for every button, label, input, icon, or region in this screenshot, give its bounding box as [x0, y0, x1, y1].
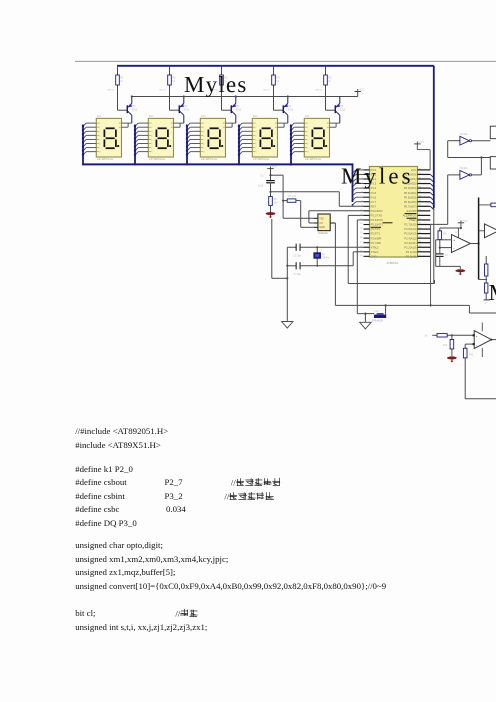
- wire sensor out down: [334, 223, 336, 305]
- wire inverterC input: [430, 175, 460, 225]
- svg-text:P1.7: P1.7: [371, 200, 377, 204]
- resistor R6 reset: [269, 197, 279, 206]
- svg-text:VCC: VCC: [462, 219, 468, 223]
- svg-text:VCC: VCC: [411, 168, 417, 172]
- svg-text:0V: 0V: [485, 303, 488, 305]
- svg-text:9012: 9012: [288, 108, 294, 111]
- wire VCC top rail: [117, 65, 434, 67]
- display DS4 7SEG: [238, 115, 284, 161]
- op inverter U5: [460, 134, 472, 145]
- wire R7 to sensor pin3: [301, 201, 314, 228]
- resistor R7 sensor: [283, 196, 301, 202]
- svg-text:9012: 9012: [132, 108, 138, 111]
- svg-text:9012: 9012: [340, 108, 346, 111]
- svg-text:P1.5: P1.5: [371, 191, 377, 195]
- wire inverterC out: [472, 156, 483, 175]
- svg-text:P0.3(AD3): P0.3(AD3): [404, 186, 417, 190]
- transistor Q3: [231, 97, 241, 124]
- svg-text:R3: R3: [224, 76, 228, 80]
- op-amp U7: [473, 323, 493, 358]
- op-amp U3: [452, 231, 471, 253]
- svg-text:9012: 9012: [184, 108, 190, 111]
- svg-text:P0.6(AD6): P0.6(AD6): [404, 200, 417, 204]
- svg-text:14: 14: [360, 228, 363, 230]
- op sensor U2 box: [314, 214, 335, 235]
- capacitor C3: [294, 262, 302, 276]
- svg-text:P0.5(AD5): P0.5(AD5): [404, 195, 417, 199]
- svg-text:DS2: DS2: [149, 115, 154, 118]
- label watermark Myles 3: [489, 284, 496, 305]
- node emitter rail junction: [287, 95, 289, 97]
- svg-text:VCC: VCC: [359, 88, 365, 92]
- svg-text:20: 20: [360, 255, 363, 257]
- resistor R2: [160, 75, 177, 91]
- svg-text:SPEAKER: SPEAKER: [372, 320, 384, 323]
- svg-text:VCC: VCC: [272, 165, 278, 169]
- ground reset (power rail): [266, 212, 276, 218]
- svg-text:+: +: [453, 238, 455, 242]
- display DS5 7SEG: [290, 115, 336, 161]
- svg-text:R10 1k: R10 1k: [108, 89, 116, 91]
- svg-text:VCC: VCC: [419, 140, 425, 144]
- resistor R9 clipped: [491, 203, 496, 207]
- transistor Q1: [127, 97, 137, 124]
- node crystal junctions: [286, 246, 318, 279]
- svg-text:P3.1/TXD: P3.1/TXD: [371, 214, 383, 218]
- svg-text:12MHz: 12MHz: [322, 258, 330, 260]
- svg-text:C1: C1: [261, 175, 265, 178]
- svg-text:15: 15: [360, 232, 363, 234]
- ground opampA (power rail): [455, 269, 465, 275]
- wire top border line: [75, 60, 496, 62]
- svg-text:P2.4(A12): P2.4(A12): [404, 236, 416, 240]
- svg-text:17: 17: [360, 241, 363, 243]
- svg-text:P1.6: P1.6: [371, 195, 377, 199]
- wire P0 bus entries: [430, 174, 434, 209]
- resistor R4: [264, 75, 281, 91]
- wire reset mid: [270, 183, 272, 197]
- svg-text:Q4: Q4: [288, 104, 292, 108]
- svg-text:R1: R1: [120, 76, 124, 80]
- transistor Q4: [283, 97, 293, 124]
- svg-text:10k: 10k: [274, 202, 279, 204]
- svg-text:P3.0/RXD: P3.0/RXD: [371, 209, 383, 213]
- svg-text:10uF: 10uF: [258, 186, 264, 188]
- svg-text:P1.3: P1.3: [371, 182, 377, 186]
- wire opampD out: [491, 339, 496, 341]
- resistor R5: [316, 75, 333, 91]
- wire crystal ground column: [272, 219, 288, 320]
- svg-text:R10 1k: R10 1k: [160, 89, 168, 91]
- op MCU U1 AT89C51 box: [370, 167, 418, 258]
- wire sensor pin2 to MCU P3.0: [309, 211, 364, 223]
- wire XTAL1: [287, 252, 363, 266]
- svg-text:DS4: DS4: [253, 115, 258, 118]
- capacitor C2: [294, 244, 302, 258]
- svg-text:VO: VO: [319, 222, 323, 225]
- svg-text:LZY-MPX4-CA: LZY-MPX4-CA: [253, 158, 269, 161]
- svg-text:Q3: Q3: [236, 104, 240, 108]
- wire display bus entry 3: [186, 125, 188, 166]
- node emitter rail junction: [235, 95, 237, 97]
- svg-text:GND: GND: [319, 226, 325, 229]
- svg-text:P3.2/INT0: P3.2/INT0: [371, 218, 384, 222]
- wire base column 5: [326, 66, 336, 110]
- op RX transducer clipped: [490, 157, 496, 169]
- transistor Q2: [179, 97, 189, 124]
- svg-text:74LS04: 74LS04: [460, 168, 469, 170]
- svg-text:DS5: DS5: [305, 115, 310, 118]
- svg-text:LS1: LS1: [375, 310, 380, 313]
- wire inverterB input: [448, 141, 491, 158]
- svg-text:XTAL1: XTAL1: [371, 250, 380, 254]
- svg-text:P2.0(A8): P2.0(A8): [406, 254, 417, 258]
- op inverter U6: [460, 168, 472, 179]
- svg-text:R2: R2: [172, 76, 176, 80]
- op-amp U4 clipped: [479, 224, 496, 238]
- wire inverterB out: [472, 140, 491, 142]
- label watermark Myles 1: [185, 76, 246, 97]
- svg-text:P3.3/INT1: P3.3/INT1: [371, 223, 384, 227]
- svg-text:R15: R15: [469, 355, 474, 357]
- svg-text:C4: C4: [445, 255, 449, 257]
- svg-text:1k: 1k: [120, 80, 123, 83]
- resistor R12: [484, 276, 490, 305]
- label overbars: [371, 214, 417, 228]
- svg-text:R10 1k: R10 1k: [316, 89, 324, 91]
- svg-text:R10 1k: R10 1k: [264, 89, 272, 91]
- wire base column 4: [274, 66, 284, 110]
- svg-text:1k: 1k: [328, 80, 331, 83]
- crystal X1: [314, 247, 330, 266]
- svg-text:P0.7(AD7): P0.7(AD7): [404, 204, 417, 208]
- label watermark Myles 2: [342, 168, 410, 189]
- display DS2 7SEG: [134, 115, 180, 161]
- display DS1 7SEG: [82, 115, 128, 161]
- wire right black net: [479, 198, 491, 280]
- svg-text:−: −: [476, 344, 478, 348]
- wire sensor output long: [335, 305, 496, 313]
- wire opampA vcc pin: [458, 228, 460, 240]
- svg-text:R14: R14: [443, 345, 448, 347]
- svg-text:TX0: TX0: [319, 218, 324, 221]
- wire reset top: [270, 169, 272, 181]
- display DS3 7SEG: [186, 115, 232, 161]
- wire display bus entry 4: [238, 125, 240, 166]
- svg-text:DS3: DS3: [201, 115, 206, 118]
- svg-text:P2.5(A13): P2.5(A13): [404, 232, 416, 236]
- svg-text:XTAL2: XTAL2: [371, 245, 380, 249]
- wire display data bus bottom: [82, 163, 353, 165]
- power flag VCC rail: [355, 88, 365, 92]
- svg-text:LZY-MPX4-CA: LZY-MPX4-CA: [149, 158, 165, 161]
- power flag VCC opampA: [458, 219, 468, 229]
- resistor R3: [212, 75, 229, 91]
- svg-text:1k: 1k: [276, 80, 279, 83]
- wire speaker right up: [385, 305, 387, 314]
- svg-text:Q5: Q5: [340, 104, 344, 108]
- wire display bus entry 1: [82, 125, 84, 166]
- svg-text:P2.1(A9): P2.1(A9): [406, 250, 417, 254]
- svg-text:C2 30p: C2 30p: [294, 256, 302, 258]
- node reset taps: [269, 174, 271, 193]
- svg-text:EA/VPP: EA/VPP: [407, 209, 417, 213]
- svg-text:1k: 1k: [172, 80, 175, 83]
- wire transistor emitter rail: [132, 92, 358, 97]
- svg-text:1k: 1k: [224, 80, 227, 83]
- resistor R14 divider: [443, 335, 454, 356]
- svg-text:74LS04: 74LS04: [460, 134, 469, 136]
- svg-text:X1: X1: [322, 253, 326, 256]
- svg-text:P1.0: P1.0: [371, 168, 377, 172]
- wire opampA minus: [439, 247, 452, 249]
- svg-text:R8: R8: [443, 233, 447, 236]
- wire right vertical bus: [433, 66, 435, 284]
- svg-text:RST: RST: [371, 204, 377, 208]
- wire reset bottom: [270, 205, 272, 213]
- power flag VCC reset: [267, 165, 277, 169]
- power flag VCC mcu: [414, 140, 430, 170]
- svg-text:R7 4.7k: R7 4.7k: [288, 196, 297, 198]
- resistor R11: [485, 256, 488, 276]
- svg-text:C3 30p: C3 30p: [294, 274, 302, 276]
- wire feedback bottom: [465, 398, 496, 400]
- wire opampA bottom: [436, 266, 461, 269]
- wire display bus entry 2: [134, 125, 136, 166]
- wire RST to MCU: [271, 192, 364, 207]
- resistor R13 input: [425, 334, 474, 338]
- wire base column 1: [118, 66, 128, 110]
- speaker LS1: [372, 310, 387, 323]
- svg-text:R5: R5: [328, 76, 332, 80]
- svg-text:LZY-MPX4-CA: LZY-MPX4-CA: [201, 158, 217, 161]
- svg-text:P2.7(A15): P2.7(A15): [404, 223, 416, 227]
- resistor R8 opampA: [438, 228, 462, 248]
- wire display bus entry 5: [290, 125, 292, 166]
- capacitor C1 reset: [258, 175, 275, 188]
- op TX transducer clipped: [490, 126, 496, 138]
- svg-text:P2.3(A11): P2.3(A11): [404, 241, 416, 245]
- resistor R15 feedback: [463, 344, 474, 399]
- ground crystal: [282, 320, 293, 328]
- svg-text:AT89C51: AT89C51: [387, 261, 399, 265]
- svg-text:Q1: Q1: [132, 104, 136, 108]
- svg-text:13: 13: [360, 223, 363, 225]
- ground speaker: [360, 314, 371, 329]
- svg-text:P2.6(A14): P2.6(A14): [404, 227, 416, 231]
- svg-text:P3.6/WR: P3.6/WR: [371, 236, 382, 240]
- svg-text:R6: R6: [274, 198, 278, 201]
- node emitter rail junction: [183, 95, 185, 97]
- svg-text:P3.5/T1: P3.5/T1: [371, 232, 381, 236]
- wire P2 column: [430, 225, 432, 306]
- svg-text:DS1: DS1: [97, 115, 102, 118]
- svg-text:GND: GND: [371, 254, 377, 258]
- node long wire junctions: [385, 304, 432, 306]
- svg-text:R4: R4: [276, 76, 280, 80]
- svg-text:P3.7/RD: P3.7/RD: [371, 241, 381, 245]
- wire P3.2 to speaker: [357, 220, 374, 314]
- svg-text:16: 16: [360, 237, 363, 239]
- wire opampA out: [471, 242, 480, 244]
- svg-text:LZY-MPX4-CA: LZY-MPX4-CA: [97, 158, 113, 161]
- svg-text:SONAR1: SONAR1: [318, 232, 329, 235]
- wire base column 3: [222, 66, 232, 110]
- node sensor vcc junction: [282, 200, 284, 202]
- node bus junction: [290, 163, 292, 165]
- wire XTAL2: [287, 246, 363, 248]
- op MCU pins: [360, 168, 430, 258]
- svg-text:P2.2(A10): P2.2(A10): [404, 245, 416, 249]
- ground divider (power rail): [447, 356, 457, 362]
- transistor Q5: [335, 97, 345, 124]
- resistor R1: [108, 75, 125, 91]
- svg-text:Q2: Q2: [184, 104, 188, 108]
- svg-text:LZY-MPX4-CA: LZY-MPX4-CA: [305, 158, 321, 161]
- svg-text:+: +: [476, 335, 478, 339]
- svg-text:IN: IN: [425, 335, 428, 337]
- wire bus fan to P1 pins: [352, 164, 364, 205]
- node speaker junction: [364, 313, 366, 315]
- wire P3.1 loop: [348, 215, 434, 283]
- wire base column 2: [170, 66, 180, 110]
- svg-text:P1.4: P1.4: [371, 186, 377, 190]
- wire VCC branch to sensor: [271, 175, 315, 218]
- wire opampA plus branch: [436, 240, 452, 267]
- capacitor C4 opampA: [436, 248, 448, 267]
- node emitter rail junction: [131, 95, 133, 97]
- svg-text:P0.4(AD4): P0.4(AD4): [404, 191, 417, 195]
- svg-text:9012: 9012: [236, 108, 242, 111]
- svg-text:−: −: [453, 247, 455, 251]
